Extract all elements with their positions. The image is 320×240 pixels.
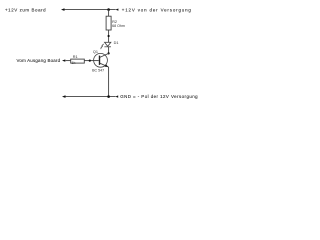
junction bottom rail	[107, 95, 110, 98]
junction dot between R2 and D1	[108, 35, 110, 37]
wire to R1	[65, 60, 70, 62]
LED D1	[101, 42, 111, 48]
wire R2 to LED	[108, 30, 110, 42]
wire bottom rail	[65, 96, 115, 98]
svg-text:Vom Ausgang Board: Vom Ausgang Board	[17, 58, 61, 63]
wire R1 to base	[84, 60, 99, 62]
wire top rail	[64, 9, 115, 11]
wire R2 top	[108, 10, 110, 17]
wire emitter down	[108, 67, 110, 97]
svg-text:GND = - Pol der 12V Versorgung: GND = - Pol der 12V Versorgung	[120, 94, 198, 99]
svg-text:+12V zum Board: +12V zum Board	[5, 8, 46, 13]
resistor R1	[71, 59, 85, 63]
arrowhead bottom-left	[62, 95, 66, 98]
svg-text:D1: D1	[114, 41, 119, 45]
svg-text:+12V von der Versorgung: +12V von der Versorgung	[122, 8, 192, 13]
svg-text:R1: R1	[73, 55, 78, 59]
arrowhead top-right (from supply)	[115, 9, 118, 11]
arrowhead top-left (to board)	[61, 8, 65, 11]
svg-text:BC 547: BC 547	[92, 69, 104, 73]
junction top rail	[107, 8, 110, 11]
junction at collector pin	[108, 52, 110, 54]
LED emission arrow tips	[101, 46, 102, 47]
svg-text:68 Ohm: 68 Ohm	[112, 24, 125, 28]
wire LED to collector	[108, 47, 110, 54]
arrowhead mid-left (from output board)	[62, 59, 65, 61]
arrowhead bottom-right	[115, 95, 118, 97]
svg-text:1k: 1k	[71, 61, 75, 65]
transistor Q1	[94, 53, 109, 67]
resistor R2	[106, 16, 111, 30]
junction at base pin	[89, 60, 91, 62]
svg-text:Q1: Q1	[93, 50, 98, 54]
